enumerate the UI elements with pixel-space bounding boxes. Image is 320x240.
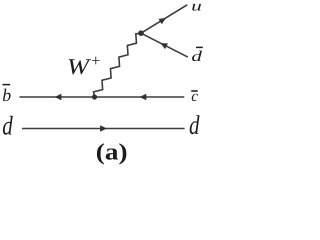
W+ boson wavy propagator	[94, 33, 141, 97]
svg-text:d: d	[2, 112, 14, 142]
arrow on d-bar line pointing toward vertex	[160, 43, 168, 49]
svg-text:u: u	[191, 0, 202, 15]
wire: u quark line	[141, 5, 187, 33]
wire: b-bar to c-bar fermion line	[20, 96, 185, 98]
svg-text:(a): (a)	[96, 139, 128, 165]
node: W decay vertex	[138, 30, 144, 36]
svg-text:+: +	[91, 51, 100, 70]
arrow on c-bar line pointing left	[140, 94, 147, 100]
arrow on b-bar line pointing left	[55, 94, 62, 100]
svg-text:d: d	[191, 49, 202, 65]
svg-text:W: W	[67, 54, 92, 79]
svg-text:b: b	[2, 85, 11, 105]
node: vertex on b-bar line	[92, 94, 97, 99]
arrow on d line pointing right	[100, 125, 107, 131]
svg-text:d: d	[189, 111, 201, 141]
wire: d-bar quark line	[141, 33, 188, 57]
arrow on u line pointing up-right	[158, 18, 165, 24]
wire: spectator d fermion line	[22, 128, 185, 130]
